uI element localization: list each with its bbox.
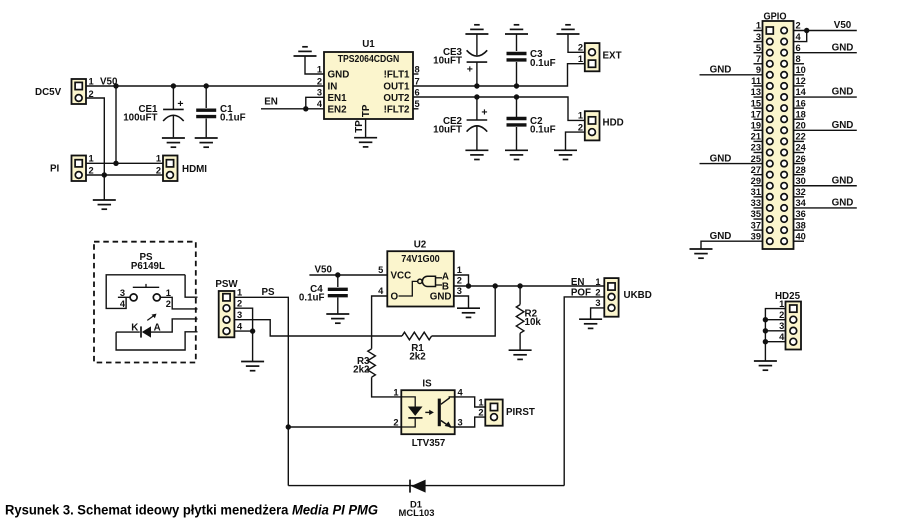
svg-text:6: 6 (796, 43, 801, 53)
svg-text:GND: GND (832, 198, 854, 209)
svg-text:2: 2 (166, 299, 171, 309)
ground (457, 308, 480, 317)
svg-text:V50: V50 (834, 20, 852, 31)
svg-text:1: 1 (478, 397, 483, 407)
svg-text:36: 36 (796, 209, 806, 219)
svg-text:1: 1 (89, 154, 94, 164)
wire EN to U1 EN1 (306, 97, 324, 109)
junction CE3/OUT1 (474, 83, 479, 88)
svg-text:GND: GND (430, 291, 452, 302)
svg-text:IN: IN (328, 82, 338, 93)
wire bottom rail (PS to POF) (288, 485, 564, 487)
resistor R2 10k (516, 286, 541, 350)
U1 pin5 stub (413, 108, 419, 110)
ground (195, 138, 218, 147)
svg-text:3: 3 (779, 321, 784, 331)
ground (326, 314, 349, 323)
svg-text:!FLT1: !FLT1 (384, 70, 410, 81)
svg-text:10k: 10k (525, 317, 542, 328)
svg-text:4: 4 (378, 286, 384, 296)
svg-text:3: 3 (458, 417, 463, 427)
svg-text:K: K (131, 323, 138, 334)
wire U1 pin1 GND to ground (305, 56, 324, 74)
junction GPIO V50 (804, 28, 809, 33)
svg-text:4: 4 (458, 387, 464, 397)
svg-text:3: 3 (237, 310, 242, 320)
resistor R1 2k2 (402, 332, 432, 362)
svg-text:10uFT: 10uFT (433, 56, 462, 67)
junction EN line/rail (493, 283, 498, 288)
svg-text:3: 3 (595, 298, 600, 308)
svg-text:OUT2: OUT2 (383, 93, 410, 104)
svg-text:12: 12 (796, 76, 806, 86)
svg-text:GND: GND (832, 87, 854, 98)
wire R3 to IS pin1 (372, 377, 402, 397)
junction HD25 pin3 (763, 328, 768, 333)
svg-text:13: 13 (751, 87, 761, 97)
connector PIRST (478, 397, 535, 425)
ground (754, 361, 777, 370)
wire GPIO pin34 GND (794, 207, 857, 209)
svg-text:3: 3 (756, 32, 761, 42)
connector HDD (578, 111, 624, 141)
wire EN line (U2 pin2 to UKBD pin1) (454, 285, 605, 287)
svg-text:2: 2 (578, 122, 583, 132)
svg-text:6: 6 (415, 88, 420, 98)
svg-text:8: 8 (415, 64, 420, 74)
svg-text:1: 1 (779, 299, 784, 309)
svg-text:1: 1 (317, 64, 322, 74)
wire OUT2 rail (413, 97, 585, 120)
wire IS pin3 to PIRST pin2 (455, 417, 486, 427)
ground (inverted) (294, 47, 317, 56)
svg-text:35: 35 (751, 209, 761, 219)
capacitor C1 (196, 86, 245, 137)
wire DC5V pin2 down (86, 98, 104, 200)
svg-text:2: 2 (578, 43, 583, 53)
ground (241, 362, 264, 371)
ground (354, 138, 377, 147)
wire PSW pin3 to EN rail (234, 320, 402, 336)
wire IS pin4 to PIRST pin1 (455, 397, 486, 407)
connector DC5V (35, 76, 94, 104)
wire V50 drop to PI pin1 (115, 86, 117, 163)
svg-text:31: 31 (751, 187, 761, 197)
svg-text:34: 34 (796, 198, 807, 208)
wire PSW pin4 stub (234, 330, 252, 332)
svg-text:23: 23 (751, 143, 761, 153)
optocoupler IS LTV357 (401, 379, 454, 450)
junction PI pin1 (113, 161, 118, 166)
svg-text:38: 38 (796, 220, 806, 230)
resistor R3 2k2 (353, 349, 375, 377)
junction R2/EN (517, 283, 522, 288)
svg-text:25: 25 (751, 154, 761, 164)
svg-text:O: O (391, 291, 399, 302)
svg-text:7: 7 (756, 54, 761, 64)
svg-text:4: 4 (796, 32, 802, 42)
svg-text:5: 5 (756, 43, 761, 53)
GPIO pin numbers (751, 21, 807, 242)
svg-text:IS: IS (422, 379, 432, 390)
svg-text:27: 27 (751, 165, 761, 175)
junction PI pin2 / ground (102, 172, 107, 177)
wire PSW pin1 PS net (down to bottom rail) (234, 297, 288, 485)
svg-text:15: 15 (751, 98, 761, 108)
wire HD25 pins tied to ground (765, 309, 785, 361)
svg-text:OUT1: OUT1 (383, 82, 410, 93)
wire HDD pin2 to ground (566, 132, 585, 150)
svg-text:DC5V: DC5V (35, 87, 62, 98)
diode D1 MCL103 (399, 480, 435, 518)
ground (162, 138, 185, 147)
capacitor CE2 (433, 97, 487, 150)
ground (inverted) (505, 25, 528, 34)
wire PI pin2 to HDMI pin2 (86, 174, 163, 176)
wire HD25 pin3 stub (765, 330, 785, 332)
svg-text:A: A (154, 323, 161, 334)
svg-text:U1: U1 (362, 39, 375, 50)
svg-text:37: 37 (751, 220, 761, 230)
svg-text:3: 3 (457, 286, 462, 296)
ground (93, 200, 116, 209)
svg-text:2: 2 (237, 299, 242, 309)
U2 pin numbers (378, 265, 462, 296)
ground (509, 350, 532, 359)
svg-text:P6149L: P6149L (131, 261, 165, 272)
svg-text:GND: GND (832, 42, 854, 53)
svg-text:TPS2064CDGN: TPS2064CDGN (338, 54, 400, 65)
svg-text:Rysunek 3. Schemat ideowy płyt: Rysunek 3. Schemat ideowy płytki menedże… (5, 503, 378, 519)
wire U2 pin4 output down to EN rail and R3 (372, 296, 388, 349)
svg-text:1: 1 (457, 265, 462, 275)
svg-text:4: 4 (120, 299, 126, 309)
svg-text:8: 8 (796, 54, 801, 64)
svg-text:0.1uF: 0.1uF (530, 58, 556, 69)
wire U1 TP to ground (365, 119, 367, 138)
svg-text:3: 3 (120, 288, 125, 298)
junction CE2/OUT2 (474, 94, 479, 99)
junction C1/V50 (204, 83, 209, 88)
svg-text:TP: TP (354, 120, 365, 133)
wire U2 pin3 GND to ground (454, 296, 469, 308)
junction PS/IS pin2 (286, 424, 291, 429)
junction HD25 pin2 (763, 317, 768, 322)
wire PI pin1 to HDMI pin1 (86, 162, 163, 164)
wire V50 rail (DC5V pin1 to U1 IN) (86, 85, 324, 87)
svg-text:GND: GND (710, 65, 732, 76)
capacitor C3 (507, 34, 556, 86)
svg-text:EN1: EN1 (328, 93, 348, 104)
connector HDMI (156, 154, 207, 181)
ground (inverted) (557, 25, 580, 34)
svg-text:10: 10 (796, 65, 806, 75)
svg-text:9: 9 (756, 65, 761, 75)
junction U2 pin1/pin2 (466, 283, 471, 288)
svg-text:7: 7 (415, 76, 420, 86)
svg-text:2: 2 (595, 287, 600, 297)
svg-text:2k2: 2k2 (353, 365, 370, 376)
svg-text:EN: EN (264, 96, 278, 107)
svg-text:22: 22 (796, 132, 806, 142)
svg-text:LTV357: LTV357 (412, 438, 446, 449)
svg-text:11: 11 (751, 76, 761, 86)
svg-text:1: 1 (166, 288, 171, 298)
svg-text:PIRST: PIRST (506, 407, 535, 418)
wire HD25 pin2 stub (765, 319, 785, 321)
wire POF (UKBD pin2 down to bottom rail) (564, 297, 604, 486)
svg-text:2: 2 (779, 310, 784, 320)
wire GPIO pin20 GND (794, 129, 857, 131)
svg-text:2: 2 (478, 408, 483, 418)
svg-text:GND: GND (832, 120, 854, 131)
svg-text:0.1uF: 0.1uF (530, 125, 556, 136)
wire EN to U1 EN2 (261, 108, 324, 110)
wire GPIO pin6 GND (794, 52, 857, 54)
svg-text:!FLT2: !FLT2 (384, 104, 410, 115)
svg-text:GND: GND (710, 231, 732, 242)
svg-text:24: 24 (796, 143, 807, 153)
wire GPIO pin2 V50 (794, 30, 857, 32)
LED inside PS module (K/A) (116, 314, 197, 350)
svg-text:UKBD: UKBD (624, 290, 652, 301)
svg-text:26: 26 (796, 154, 806, 164)
op-amp U1 TPS2064CDGN body (324, 39, 413, 119)
connector EXT (578, 43, 622, 72)
svg-text:29: 29 (751, 176, 761, 186)
wire GPIO pin14 GND (794, 96, 857, 98)
ground (579, 319, 602, 328)
svg-text:V50: V50 (315, 265, 333, 276)
wire EXT pin2 to ground (568, 34, 585, 52)
svg-text:2: 2 (156, 165, 161, 175)
ground (554, 150, 577, 159)
svg-text:0.1uF: 0.1uF (299, 292, 325, 303)
svg-text:1: 1 (89, 76, 94, 86)
capacitor C2 (507, 97, 556, 150)
svg-text:2: 2 (457, 275, 462, 285)
wire HD25 pin4 stub (765, 341, 785, 343)
svg-text:HDD: HDD (603, 118, 624, 129)
ground (690, 249, 713, 258)
junction HD25 pin4 (763, 339, 768, 344)
svg-text:U2: U2 (414, 240, 427, 251)
wire V50 to U2 VCC (309, 274, 387, 276)
svg-text:18: 18 (796, 109, 806, 119)
svg-text:0.1uF: 0.1uF (220, 113, 246, 124)
svg-text:+: + (177, 98, 183, 110)
svg-text:1: 1 (237, 288, 242, 298)
wire EN rail right of R1 up to EN line (432, 286, 496, 336)
svg-text:39: 39 (751, 231, 761, 241)
wire GPIO pin4 to V50 (794, 31, 807, 42)
capacitor CE1 (123, 86, 184, 137)
junction V50 rail (113, 83, 118, 88)
svg-text:2: 2 (393, 417, 398, 427)
wire GPIO pin39 GND to ground (701, 241, 763, 249)
svg-text:1: 1 (595, 277, 600, 287)
junction CE1/V50 (171, 83, 176, 88)
IS pin numbers (393, 387, 463, 427)
svg-text:4: 4 (779, 332, 785, 342)
svg-text:PS: PS (261, 287, 275, 298)
junction C2/OUT2 (514, 94, 519, 99)
svg-text:1: 1 (578, 111, 583, 121)
connector GPIO body (763, 12, 794, 250)
svg-text:MCL103: MCL103 (399, 507, 435, 518)
svg-text:17: 17 (751, 109, 761, 119)
switch S1 contacts (pins 3/4 and 1/2) (106, 275, 197, 309)
wire GPIO pin30 GND (794, 185, 857, 187)
svg-text:21: 21 (751, 132, 761, 142)
ground (505, 150, 528, 159)
svg-text:20: 20 (796, 121, 806, 131)
junction EN (303, 106, 308, 111)
svg-text:74V1G00: 74V1G00 (401, 254, 440, 265)
svg-text:GND: GND (832, 175, 854, 186)
ground (465, 150, 488, 159)
capacitor CE3 (433, 34, 487, 86)
svg-text:TP: TP (361, 104, 372, 117)
svg-text:2: 2 (89, 165, 94, 175)
svg-text:1: 1 (756, 21, 761, 31)
wire PSW pin2 to ground (234, 308, 252, 361)
U1 pin numbers (317, 64, 420, 109)
svg-text:GND: GND (328, 70, 350, 81)
connector PI (50, 154, 94, 181)
capacitor C4 (299, 275, 348, 314)
svg-text:2: 2 (796, 21, 801, 31)
svg-text:+: + (467, 63, 473, 75)
wire GPIO pin9 GND (700, 74, 763, 76)
wire UKBD pin3 to ground (591, 308, 605, 319)
GPIO pin stubs (754, 31, 805, 242)
svg-text:2k2: 2k2 (409, 352, 426, 363)
junction PSW pin4/GND (250, 328, 255, 333)
svg-text:5: 5 (378, 265, 383, 275)
svg-text:10uFT: 10uFT (433, 125, 462, 136)
svg-text:32: 32 (796, 187, 806, 197)
svg-text:EN2: EN2 (328, 104, 348, 115)
svg-text:4: 4 (237, 321, 243, 331)
svg-text:1: 1 (578, 54, 583, 64)
wire GPIO pin25 GND (700, 163, 763, 165)
connector PSW (215, 279, 243, 337)
svg-text:+: + (481, 106, 487, 118)
svg-text:PSW: PSW (215, 279, 238, 290)
connector UKBD (595, 277, 651, 317)
svg-text:4: 4 (317, 99, 323, 109)
svg-text:19: 19 (751, 121, 761, 131)
svg-text:VCC: VCC (391, 271, 412, 282)
U1 pin8 stub (413, 73, 419, 75)
junction C3/OUT1 (514, 83, 519, 88)
svg-text:33: 33 (751, 198, 761, 208)
svg-text:28: 28 (796, 165, 806, 175)
svg-text:30: 30 (796, 176, 806, 186)
svg-text:100uFT: 100uFT (123, 113, 157, 124)
wire U2 pin1 to pin2 (454, 275, 469, 286)
svg-text:40: 40 (796, 231, 806, 241)
svg-text:3: 3 (317, 88, 322, 98)
svg-text:PI: PI (50, 164, 60, 175)
logic gate U2 74V1G00 (387, 240, 454, 307)
svg-text:GND: GND (710, 153, 732, 164)
svg-text:14: 14 (796, 87, 807, 97)
wire OUT1 rail (413, 64, 585, 86)
svg-text:16: 16 (796, 98, 806, 108)
wire IS pin2 to PS net (288, 426, 401, 428)
svg-text:2: 2 (317, 76, 322, 86)
svg-text:5: 5 (415, 99, 420, 109)
junction C4/V50 (335, 272, 340, 277)
ground (inverted) (465, 25, 488, 34)
svg-text:1: 1 (156, 154, 161, 164)
svg-text:EN: EN (571, 277, 585, 288)
svg-text:HDMI: HDMI (182, 164, 207, 175)
switch module PS P6149L (dashed box) (94, 242, 196, 363)
connector HD25 (775, 291, 801, 350)
svg-text:1: 1 (393, 387, 398, 397)
svg-text:EXT: EXT (603, 51, 622, 62)
